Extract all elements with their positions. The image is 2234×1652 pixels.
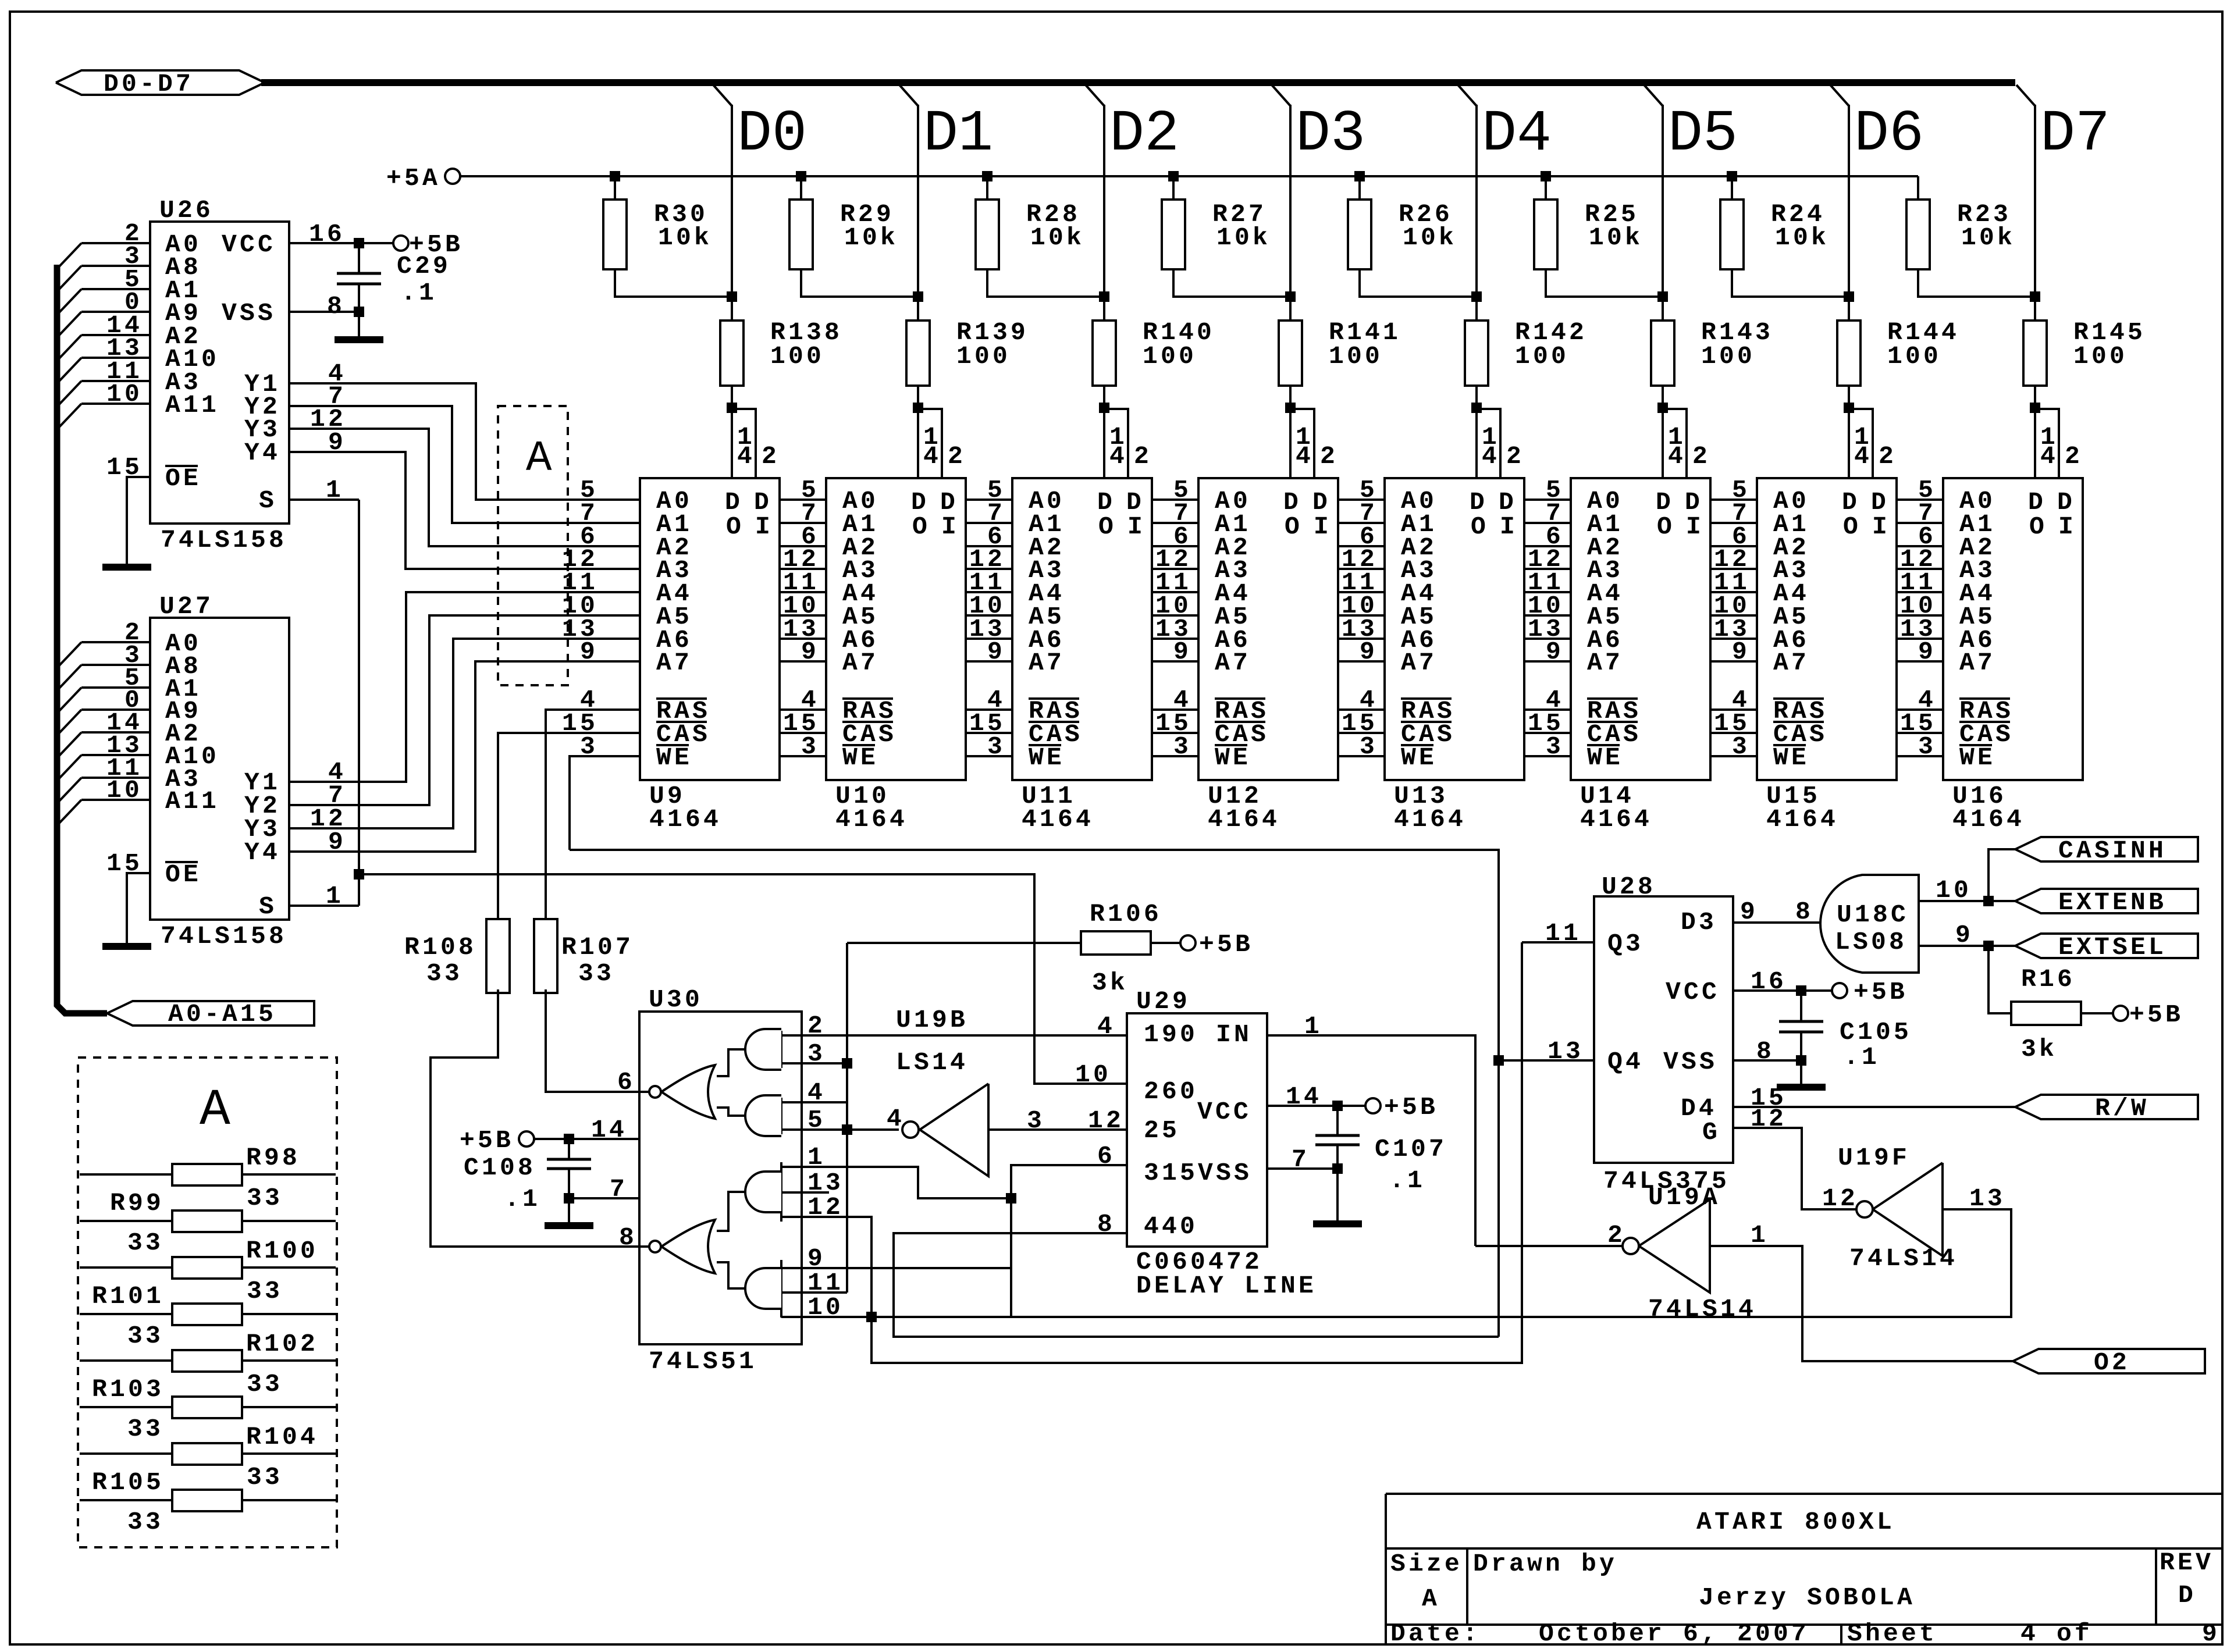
svg-text:I: I: [1686, 512, 1704, 541]
wire address/ctl row to U11: [966, 591, 1012, 593]
wire U30 pin4: [781, 1101, 847, 1103]
resistor R105 33: [172, 1490, 242, 1511]
resistor R27 10k: [1162, 200, 1185, 269]
svg-text:10: 10: [1936, 876, 1972, 905]
svg-text:Y4: Y4: [244, 439, 280, 467]
junction U26 VSS/C29: [354, 307, 364, 317]
wire address/ctl row to U14: [1524, 499, 1571, 501]
wire R25 bottom lead: [1546, 269, 1663, 297]
wire address/ctl row to U15: [1710, 499, 1757, 501]
resistor R16 3k: [2011, 1002, 2081, 1025]
wire: [242, 1359, 336, 1362]
title block: [1386, 1493, 2222, 1495]
svg-text:10k: 10k: [1589, 223, 1643, 252]
svg-text:4: 4: [1482, 442, 1500, 471]
bus tap U26 A2: [58, 335, 81, 359]
bus tap U26 A1: [58, 289, 81, 314]
svg-text:R102: R102: [246, 1330, 318, 1358]
svg-text:October 6, 2007: October 6, 2007: [1539, 1619, 1809, 1648]
wire D6 vertical: [1848, 105, 1850, 321]
bus tap U27 A10: [58, 755, 81, 779]
bus tap U27 A1: [58, 688, 81, 712]
wire U30 pin1: [781, 1167, 1011, 1198]
junction D2/pullup: [1099, 291, 1109, 302]
wire CAS row to R108: [498, 733, 640, 919]
wire U26 Y1 to MUX A0 row: [289, 383, 640, 500]
wire U27 A2 input: [81, 731, 150, 734]
junction R138/DRAM pins: [727, 403, 737, 413]
wire: [1386, 1623, 2222, 1626]
DRAM U9 4164: [640, 478, 780, 780]
svg-text:VSS: VSS: [1198, 1159, 1252, 1187]
svg-text:D0-D7: D0-D7: [104, 70, 194, 98]
wire R104 row: [80, 1452, 172, 1455]
wire R108 to U30 pin8: [431, 989, 649, 1247]
wire U30 pin2 to U29 pin4: [781, 1034, 1127, 1037]
svg-text:R103: R103: [92, 1375, 164, 1404]
svg-text:S: S: [259, 486, 277, 515]
svg-text:R107: R107: [561, 933, 634, 962]
svg-text:R105: R105: [92, 1468, 164, 1497]
port flag EXTSEL: [2015, 934, 2198, 958]
wire U12 pin2 stub: [1290, 409, 1314, 478]
bus tap U26 A3: [58, 381, 81, 405]
svg-text:74LS158: 74LS158: [161, 922, 287, 950]
svg-text:R100: R100: [246, 1237, 318, 1265]
svg-text:4: 4: [2040, 442, 2058, 471]
resistor R30 10k: [603, 200, 627, 269]
address bus vertical A0-A15: [57, 265, 107, 1013]
svg-text:LS14: LS14: [896, 1048, 968, 1077]
svg-text:2: 2: [1506, 442, 1524, 471]
svg-text:4 of: 4 of: [2020, 1619, 2093, 1648]
resistor R99 33: [172, 1210, 242, 1232]
junction +5A/R pullup 4: [1354, 171, 1365, 181]
junction D5/pullup: [1657, 291, 1668, 302]
svg-text:8: 8: [619, 1223, 637, 1252]
svg-text:+5A: +5A: [386, 164, 440, 193]
svg-text:260: 260: [1144, 1077, 1198, 1106]
resistor R142 100: [1465, 321, 1488, 386]
power terminal +5B at U28: [1832, 983, 1847, 998]
wire R105 row: [80, 1499, 172, 1501]
wire U30 pin3: [781, 1062, 847, 1064]
wire D3 vertical: [1289, 105, 1292, 321]
wire address/ctl row to U10: [780, 545, 826, 547]
wire U29 pin8 path: [894, 1233, 1499, 1337]
svg-text:74LS51: 74LS51: [649, 1347, 757, 1376]
wire R100 row: [80, 1266, 172, 1269]
wire R138 to U9: [731, 386, 733, 478]
wire address/ctl row to U12: [1152, 708, 1198, 711]
svg-text:2: 2: [2065, 442, 2083, 471]
wire address/ctl row to U15: [1710, 614, 1757, 617]
svg-text:WE: WE: [1959, 743, 1995, 772]
port flag O2: [2013, 1349, 2205, 1373]
svg-text:9: 9: [1740, 898, 1758, 926]
svg-text:10k: 10k: [844, 223, 898, 252]
wire address/ctl row to U10: [780, 732, 826, 734]
NOR gate U30 top output: [661, 1065, 715, 1119]
wire address/ctl row to U13: [1338, 545, 1385, 547]
wire U19B output to U29 pin12: [988, 1128, 1127, 1131]
wire address/ctl row to U16: [1897, 545, 1943, 547]
svg-text:O: O: [912, 512, 930, 541]
svg-text:I: I: [1127, 512, 1146, 541]
svg-text:O: O: [1843, 512, 1861, 541]
svg-text:4: 4: [1668, 442, 1686, 471]
node D0 bus tap: [713, 85, 732, 106]
resistor R25 10k: [1534, 200, 1557, 269]
wire: [1386, 1547, 2222, 1550]
svg-text:R108: R108: [404, 933, 476, 962]
svg-text:100: 100: [1329, 342, 1383, 371]
wire address/ctl row to U14: [1524, 638, 1571, 640]
bus tap U26 A9: [58, 312, 81, 336]
svg-text:U27: U27: [159, 592, 214, 621]
svg-text:R101: R101: [92, 1282, 164, 1311]
svg-text:4164: 4164: [1952, 805, 2025, 834]
wire S net vertical: [358, 500, 360, 906]
wire address/ctl row to U16: [1897, 732, 1943, 734]
svg-text:A11: A11: [165, 787, 219, 816]
capacitor: [1315, 1134, 1360, 1137]
wire address/ctl row to U10: [780, 522, 826, 524]
wire U10 pin2 stub: [918, 409, 942, 478]
wire U19A output: [1475, 1245, 1623, 1247]
wire address/ctl row to U10: [780, 638, 826, 640]
svg-text:3: 3: [1918, 732, 1936, 761]
svg-text:O: O: [2029, 512, 2047, 541]
wire U27 A11 input: [81, 799, 150, 801]
wire address/ctl row to U11: [966, 638, 1012, 640]
wire pullup lead 3: [1172, 176, 1175, 200]
wire address/ctl row to U11: [966, 732, 1012, 734]
svg-text:3: 3: [1732, 732, 1750, 761]
svg-text:A7: A7: [1401, 649, 1437, 677]
wire U30 pin7: [569, 1197, 639, 1199]
wire address/ctl row to U15: [1710, 545, 1757, 547]
svg-text:C29: C29: [397, 252, 451, 280]
data bus D0-D7: [261, 79, 2015, 86]
svg-text:D3: D3: [1681, 908, 1717, 937]
inverter U19F 74LS14: [1873, 1163, 1943, 1256]
wire R99 row: [80, 1220, 172, 1222]
wire U26 A9 input: [81, 311, 150, 313]
junction +5A/R pullup 5: [1541, 171, 1551, 181]
wire U19F output: [871, 1209, 2011, 1317]
wire U27 pin S: [289, 905, 359, 907]
junction +5A/R pullup 2: [982, 171, 993, 181]
inverter U19B LS14: [920, 1084, 988, 1176]
svg-text:2: 2: [948, 442, 966, 471]
svg-text:33: 33: [127, 1322, 163, 1350]
svg-text:I: I: [755, 512, 773, 541]
wire U13 pin2 stub: [1477, 409, 1500, 478]
resistor R108 33: [486, 919, 510, 993]
svg-text:A0-A15: A0-A15: [168, 1000, 276, 1028]
svg-text:U28: U28: [1602, 873, 1656, 901]
wire address/ctl row to U12: [1152, 732, 1198, 734]
wire +5A rail: [460, 175, 1918, 177]
wire address/ctl row to U12: [1152, 591, 1198, 593]
svg-text:9: 9: [1546, 638, 1564, 666]
svg-text:8: 8: [1756, 1037, 1774, 1066]
resistor R138 100: [720, 321, 744, 386]
wire U30 pin11: [781, 1291, 847, 1294]
DRAM U11 4164: [1012, 478, 1152, 780]
wire U29 pin6: [1011, 1165, 1127, 1317]
svg-text:D4: D4: [1482, 102, 1552, 168]
wire R16 to +5B: [2081, 1012, 2113, 1014]
wire address/ctl row to U14: [1524, 522, 1571, 524]
svg-text:R99: R99: [110, 1189, 164, 1217]
junction +5A/R pullup 6: [1727, 171, 1737, 181]
svg-text:Q3: Q3: [1607, 930, 1644, 958]
svg-text:14: 14: [591, 1116, 627, 1144]
wire address/ctl row to U16: [1897, 638, 1943, 640]
svg-text:2: 2: [1879, 442, 1897, 471]
svg-text:Drawn by: Drawn by: [1473, 1550, 1617, 1578]
wire R144 to U15: [1848, 386, 1850, 478]
svg-text:74LS14: 74LS14: [1648, 1295, 1756, 1323]
svg-text:8: 8: [327, 292, 345, 321]
wire address/ctl row to U15: [1710, 708, 1757, 711]
svg-text:A: A: [200, 1082, 230, 1140]
capacitor: [337, 272, 381, 275]
wire R27 bottom lead: [1173, 269, 1290, 297]
svg-text:R106: R106: [1090, 900, 1162, 928]
DRAM U10 4164: [826, 478, 966, 780]
capacitor C107 .1: [1336, 1106, 1339, 1135]
wire R98 row: [80, 1173, 172, 1176]
wire pullup lead 5: [1545, 176, 1547, 200]
svg-text:440: 440: [1144, 1212, 1198, 1241]
wire address/ctl row to U15: [1710, 732, 1757, 734]
wire: [1336, 1145, 1339, 1220]
wire R24 bottom lead: [1732, 269, 1849, 297]
wire U27 A9 input: [81, 708, 150, 711]
wire R28 bottom lead: [987, 269, 1104, 297]
wire address/ctl row to U12: [1152, 545, 1198, 547]
svg-text:2: 2: [762, 442, 780, 471]
svg-text:D5: D5: [1668, 102, 1738, 168]
svg-text:A7: A7: [1959, 649, 1995, 677]
svg-text:IN: IN: [1216, 1020, 1252, 1049]
wire U26 Y3 to MUX A2 row: [289, 429, 640, 546]
svg-text:Sheet: Sheet: [1847, 1619, 1937, 1648]
svg-text:C108: C108: [464, 1153, 536, 1182]
svg-text:7: 7: [1292, 1145, 1310, 1174]
wire U29 pin7: [1267, 1167, 1337, 1170]
capacitor: [1779, 1020, 1823, 1023]
svg-text:16: 16: [1751, 967, 1787, 996]
wire address/ctl row to U11: [966, 568, 1012, 570]
wire U28 pin8 VSS: [1733, 1059, 1801, 1062]
svg-text:10k: 10k: [1216, 223, 1271, 252]
svg-text:10: 10: [1075, 1060, 1111, 1089]
wire U27 Y3 to MUX A6 row: [289, 639, 640, 828]
DRAM U15 4164: [1757, 478, 1897, 780]
wire address/ctl row to U10: [780, 499, 826, 501]
resistor R103 33: [172, 1397, 242, 1418]
terminal: [649, 1086, 661, 1098]
wire U18C pin10 input / EXTENB: [1919, 900, 2015, 902]
AOI gate U30 74LS51: [639, 1012, 802, 1344]
svg-text:D2: D2: [1109, 102, 1179, 168]
resistor R141 100: [1279, 321, 1302, 386]
wire U26 VCC to +5B: [289, 242, 393, 244]
capacitor: [547, 1158, 591, 1161]
svg-text:A7: A7: [1773, 649, 1809, 677]
bus flag D0-D7: [56, 70, 265, 95]
wire D4 vertical: [1475, 105, 1478, 321]
svg-text:I: I: [1314, 512, 1332, 541]
bus tap U27 A0: [58, 642, 81, 667]
svg-text:10k: 10k: [1403, 223, 1457, 252]
junction D4/pullup: [1471, 291, 1482, 302]
delay line U29 C060472: [1127, 1013, 1267, 1247]
junction S net: [354, 869, 364, 880]
svg-text:WE: WE: [656, 743, 692, 772]
node D5 bus tap: [1644, 85, 1663, 106]
svg-text:2: 2: [1134, 442, 1152, 471]
resistor R98 33: [172, 1164, 242, 1185]
wire U26 A11 input: [81, 403, 150, 405]
svg-text:WE: WE: [1215, 743, 1251, 772]
wire address/ctl row to U14: [1524, 545, 1571, 547]
svg-text:R16: R16: [2021, 965, 2075, 994]
wire address/ctl row to U15: [1710, 591, 1757, 593]
svg-text:U19B: U19B: [896, 1006, 968, 1034]
bus tap U27 A9: [58, 710, 81, 734]
wire: [358, 284, 360, 337]
svg-text:15: 15: [106, 849, 143, 878]
junction +5A/R pullup 1: [796, 171, 806, 181]
svg-text:I: I: [1872, 512, 1890, 541]
wire U29 pin14: [1267, 1105, 1365, 1107]
bubble U19F: [1856, 1201, 1873, 1217]
wire U28 pin9 D3 to U18C: [1733, 921, 1824, 924]
svg-text:U18C: U18C: [1837, 900, 1909, 929]
junction R143/DRAM pins: [1657, 403, 1668, 413]
terminal: [649, 1241, 661, 1252]
wire pin12 net to Q3: [871, 942, 1522, 1363]
wire address/ctl row to U11: [966, 660, 1012, 663]
wire address/ctl row to U15: [1710, 755, 1757, 757]
svg-text:I: I: [2058, 512, 2076, 541]
wire D0 vertical: [731, 105, 733, 321]
junction D7/pullup: [2030, 291, 2040, 302]
wire address/ctl row to U14: [1524, 755, 1571, 757]
svg-text:33: 33: [578, 959, 614, 988]
svg-text:VCC: VCC: [1197, 1098, 1251, 1126]
wire R106 to +5B: [1151, 942, 1180, 944]
wire select net vertical: [846, 943, 848, 1293]
NOR gate U30 bottom output: [661, 1220, 715, 1273]
wire U30 pin12: [781, 1217, 871, 1317]
wire R142 to U13: [1475, 386, 1478, 478]
svg-text:VSS: VSS: [1663, 1048, 1717, 1076]
AND gate U30 top-A: [780, 1031, 782, 1068]
svg-text:OE: OE: [165, 464, 201, 493]
gate connector: [717, 1262, 745, 1288]
junction EXTENB/CASINH: [1983, 896, 1994, 906]
svg-text:Q4: Q4: [1607, 1048, 1644, 1076]
port flag CASINH: [2015, 837, 2198, 861]
svg-text:VSS: VSS: [222, 299, 276, 327]
svg-text:Size: Size: [1390, 1550, 1463, 1578]
svg-text:.1: .1: [401, 279, 437, 307]
svg-text:C105: C105: [1840, 1018, 1912, 1046]
node D3 bus tap: [1272, 85, 1290, 106]
wire address/ctl row to U10: [780, 568, 826, 570]
node D4 bus tap: [1458, 85, 1477, 106]
svg-text:Date:: Date:: [1390, 1619, 1481, 1648]
wire U11 pin2 stub: [1104, 409, 1128, 478]
svg-text:.1: .1: [504, 1185, 540, 1213]
bus tap U26 A0: [58, 243, 81, 268]
wire: [242, 1313, 336, 1315]
svg-text:9: 9: [1955, 921, 1973, 949]
wire U26 OE to ground: [127, 477, 150, 564]
svg-text:10k: 10k: [1961, 223, 2015, 252]
svg-text:A: A: [1422, 1585, 1440, 1613]
ground C107: [1313, 1220, 1362, 1227]
wire: [242, 1406, 336, 1408]
resistor R100 33: [172, 1257, 242, 1279]
resistor R28 10k: [976, 200, 999, 269]
svg-text:VCC: VCC: [222, 230, 276, 259]
latch U28 74LS375: [1594, 896, 1733, 1163]
wire R141 to U12: [1289, 386, 1292, 478]
svg-text:O: O: [1098, 512, 1116, 541]
svg-text:4: 4: [737, 442, 755, 471]
svg-text:4164: 4164: [1394, 805, 1466, 834]
wire address/ctl row to U16: [1897, 499, 1943, 501]
wire address/ctl row to U11: [966, 755, 1012, 757]
wire D2 vertical: [1103, 105, 1105, 321]
wire address/ctl row to U14: [1524, 591, 1571, 593]
title divider Size: [1466, 1548, 1468, 1625]
wire address/ctl row to U16: [1897, 755, 1943, 757]
wire U27 Y2 to MUX A5 row: [289, 615, 640, 805]
svg-text:U26: U26: [159, 196, 214, 225]
svg-text:A: A: [526, 435, 552, 483]
bus tap U26 A11: [58, 404, 81, 428]
gate connector: [717, 1192, 745, 1231]
wire U26 A3 input: [81, 380, 150, 382]
gate connector: [717, 1049, 745, 1076]
wire address/ctl row to U14: [1524, 614, 1571, 617]
wire U27 Y4 to MUX A7 row: [289, 661, 640, 852]
svg-text:33: 33: [247, 1370, 283, 1398]
wire U30 pin14: [534, 1138, 639, 1140]
svg-text:4: 4: [1854, 442, 1872, 471]
svg-text:10: 10: [106, 776, 143, 804]
svg-text:4: 4: [887, 1105, 905, 1133]
wire R103 row: [80, 1406, 172, 1408]
wire address/ctl row to U13: [1338, 638, 1385, 640]
svg-text:33: 33: [426, 959, 463, 988]
wire address/ctl row to U10: [780, 660, 826, 663]
wire U30 pin13: [781, 1191, 829, 1194]
wire address/ctl row to U15: [1710, 568, 1757, 570]
svg-text:190: 190: [1144, 1020, 1198, 1049]
svg-text:+5B: +5B: [1199, 930, 1253, 959]
svg-text:9: 9: [987, 638, 1005, 666]
wire address/ctl row to U10: [780, 708, 826, 711]
